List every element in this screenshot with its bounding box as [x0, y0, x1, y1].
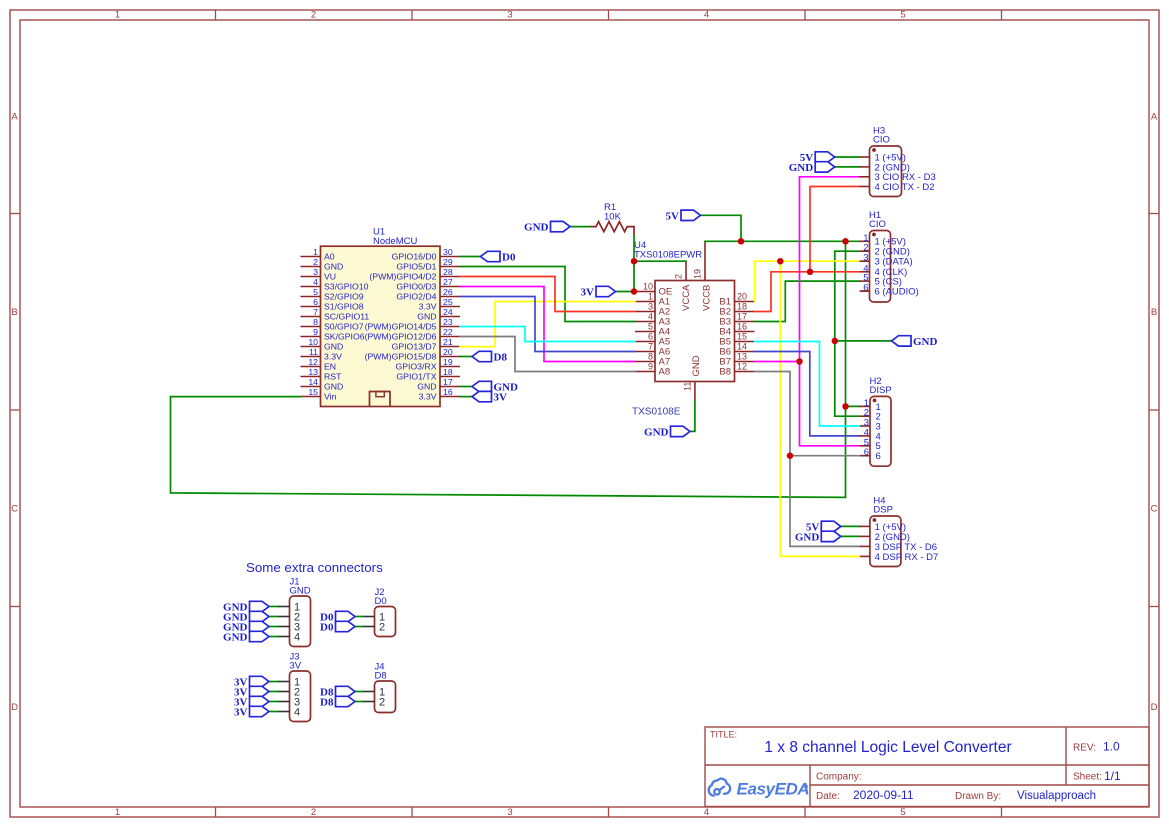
svg-text:28: 28: [443, 267, 453, 277]
svg-text:S2/GPIO9: S2/GPIO9: [324, 292, 364, 302]
svg-text:1: 1: [115, 807, 120, 818]
svg-text:D8: D8: [375, 671, 387, 682]
svg-text:4: 4: [704, 10, 709, 21]
svg-text:12: 12: [308, 357, 318, 367]
svg-text:2020-09-11: 2020-09-11: [853, 788, 914, 802]
svg-text:TITLE:: TITLE:: [710, 730, 737, 740]
svg-text:S3/GPIO10: S3/GPIO10: [324, 282, 369, 292]
svg-text:24: 24: [443, 307, 453, 317]
svg-text:3: 3: [507, 10, 512, 21]
svg-text:SC/GPIO11: SC/GPIO11: [324, 312, 369, 322]
svg-text:8: 8: [648, 352, 653, 362]
svg-text:4: 4: [648, 312, 653, 322]
svg-text:GND: GND: [324, 342, 343, 352]
svg-text:10K: 10K: [604, 212, 622, 223]
svg-text:B: B: [1151, 307, 1157, 318]
svg-text:A: A: [11, 112, 18, 123]
svg-text:VCCA: VCCA: [681, 284, 692, 311]
svg-text:A0: A0: [324, 252, 335, 262]
svg-text:6: 6: [864, 447, 869, 458]
svg-text:D: D: [1151, 702, 1158, 713]
svg-text:GPIO2/D4: GPIO2/D4: [396, 292, 436, 302]
svg-text:12: 12: [737, 362, 747, 372]
svg-text:19: 19: [443, 357, 453, 367]
svg-text:25: 25: [443, 297, 453, 307]
svg-text:B8: B8: [719, 367, 731, 378]
svg-text:6 (AUDIO): 6 (AUDIO): [875, 287, 919, 298]
svg-text:D8: D8: [494, 352, 508, 364]
svg-text:Company:: Company:: [816, 772, 862, 783]
svg-text:CIO: CIO: [873, 135, 890, 146]
svg-text:NodeMCU: NodeMCU: [373, 236, 417, 247]
svg-text:GND: GND: [789, 162, 814, 174]
svg-text:5: 5: [900, 10, 905, 21]
svg-text:5: 5: [900, 807, 905, 818]
svg-text:3V: 3V: [581, 287, 595, 299]
svg-text:4: 4: [294, 707, 300, 719]
svg-text:3.3V: 3.3V: [419, 392, 437, 402]
svg-text:1: 1: [313, 247, 318, 257]
svg-text:13: 13: [308, 367, 318, 377]
svg-text:19: 19: [693, 269, 703, 279]
svg-text:2: 2: [311, 10, 316, 21]
svg-text:23: 23: [443, 317, 453, 327]
svg-text:GND: GND: [324, 262, 343, 272]
svg-text:3: 3: [507, 807, 512, 818]
svg-text:1 x 8 channel Logic Level Conv: 1 x 8 channel Logic Level Converter: [764, 739, 1011, 756]
svg-text:DSP: DSP: [873, 505, 893, 516]
svg-text:B: B: [11, 307, 17, 318]
svg-text:14: 14: [308, 377, 318, 387]
svg-text:3.3V: 3.3V: [419, 302, 437, 312]
svg-text:(PWM)GPIO4/D2: (PWM)GPIO4/D2: [369, 272, 436, 282]
svg-text:2: 2: [379, 697, 385, 709]
svg-text:Date:: Date:: [816, 791, 840, 802]
svg-text:4: 4: [294, 632, 300, 644]
svg-text:TXS0108E: TXS0108E: [632, 407, 681, 418]
svg-text:1/1: 1/1: [1104, 769, 1121, 783]
svg-text:D0: D0: [375, 596, 387, 607]
svg-text:C: C: [11, 504, 18, 515]
svg-text:21: 21: [443, 337, 453, 347]
svg-text:18: 18: [443, 367, 453, 377]
svg-text:1: 1: [648, 292, 653, 302]
svg-text:6: 6: [863, 283, 868, 294]
svg-text:Drawn By:: Drawn By:: [955, 791, 1001, 802]
svg-text:15: 15: [737, 332, 747, 342]
svg-text:3: 3: [863, 253, 868, 264]
svg-text:SK/GPIO6: SK/GPIO6: [324, 332, 365, 342]
svg-text:16: 16: [737, 322, 747, 332]
svg-text:GPIO1/TX: GPIO1/TX: [396, 372, 436, 382]
svg-text:10: 10: [308, 337, 318, 347]
svg-text:GPIO5/D1: GPIO5/D1: [396, 262, 436, 272]
svg-text:RST: RST: [324, 372, 342, 382]
svg-text:Vin: Vin: [324, 392, 337, 402]
svg-text:29: 29: [443, 257, 453, 267]
svg-text:REV:: REV:: [1073, 743, 1096, 754]
svg-text:GND: GND: [290, 586, 311, 597]
svg-text:13: 13: [737, 352, 747, 362]
svg-text:4: 4: [313, 277, 318, 287]
svg-text:11: 11: [683, 382, 693, 391]
svg-text:5: 5: [648, 322, 653, 332]
svg-text:2: 2: [674, 274, 684, 279]
svg-text:A: A: [1151, 112, 1158, 123]
svg-text:3V: 3V: [494, 392, 508, 404]
svg-text:EasyEDA: EasyEDA: [737, 780, 810, 799]
svg-text:S0/GPIO7: S0/GPIO7: [324, 322, 364, 332]
svg-text:3: 3: [313, 267, 318, 277]
svg-text:GND: GND: [417, 312, 436, 322]
svg-text:2: 2: [311, 807, 316, 818]
svg-text:3V: 3V: [234, 707, 248, 719]
svg-text:2: 2: [379, 622, 385, 634]
svg-text:Sheet:: Sheet:: [1073, 772, 1102, 783]
svg-text:GND: GND: [795, 531, 820, 543]
svg-text:GPIO3/RX: GPIO3/RX: [395, 362, 436, 372]
svg-text:D8: D8: [320, 697, 334, 709]
svg-text:27: 27: [443, 277, 453, 287]
svg-text:15: 15: [308, 387, 318, 397]
svg-text:VCCB: VCCB: [702, 285, 713, 311]
svg-text:5: 5: [313, 287, 318, 297]
svg-text:GPIO16/D0: GPIO16/D0: [392, 252, 437, 262]
svg-text:9: 9: [648, 362, 653, 372]
svg-text:7: 7: [313, 307, 318, 317]
svg-text:18: 18: [737, 302, 747, 312]
svg-text:7: 7: [648, 342, 653, 352]
svg-text:(PWM)GPIO12/D6: (PWM)GPIO12/D6: [365, 332, 437, 342]
svg-text:10: 10: [643, 282, 653, 292]
svg-text:CIO: CIO: [869, 219, 886, 230]
svg-text:22: 22: [443, 327, 453, 337]
svg-text:GPIO13/D7: GPIO13/D7: [392, 342, 437, 352]
svg-text:DISP: DISP: [870, 385, 892, 396]
svg-text:Some extra connectors: Some extra connectors: [246, 560, 383, 575]
svg-text:VU: VU: [324, 272, 336, 282]
svg-text:C: C: [1151, 504, 1158, 515]
svg-text:GND: GND: [913, 336, 938, 348]
svg-text:(PWM)GPIO15/D8: (PWM)GPIO15/D8: [365, 352, 437, 362]
svg-text:GND: GND: [524, 222, 549, 234]
svg-text:EN: EN: [324, 362, 336, 372]
svg-text:1.0: 1.0: [1103, 740, 1120, 754]
svg-text:GPIO0/D3: GPIO0/D3: [396, 282, 436, 292]
svg-text:D0: D0: [502, 252, 516, 264]
svg-text:6: 6: [876, 451, 881, 462]
svg-text:4: 4: [704, 807, 709, 818]
svg-text:14: 14: [737, 342, 747, 352]
svg-text:GND: GND: [691, 355, 702, 376]
svg-text:Visualapproach: Visualapproach: [1017, 790, 1096, 802]
svg-text:GND: GND: [223, 632, 248, 644]
svg-text:3: 3: [648, 302, 653, 312]
svg-text:4 CIO TX - D2: 4 CIO TX - D2: [875, 182, 935, 193]
svg-text:26: 26: [443, 287, 453, 297]
svg-text:9: 9: [313, 327, 318, 337]
svg-text:6: 6: [648, 332, 653, 342]
svg-text:A8: A8: [659, 367, 671, 378]
svg-text:TXS0108EPWR: TXS0108EPWR: [634, 250, 702, 261]
svg-text:20: 20: [737, 292, 747, 302]
svg-text:3.3V: 3.3V: [324, 352, 342, 362]
svg-text:11: 11: [309, 347, 318, 357]
svg-text:5V: 5V: [666, 210, 680, 222]
svg-text:3 (DATA): 3 (DATA): [875, 257, 913, 268]
svg-text:30: 30: [443, 247, 453, 257]
svg-text:(PWM)GPIO14/D5: (PWM)GPIO14/D5: [365, 322, 437, 332]
svg-text:1: 1: [115, 10, 120, 21]
svg-text:2: 2: [313, 257, 318, 267]
svg-text:4 DSP RX - D7: 4 DSP RX - D7: [875, 552, 939, 563]
svg-text:6: 6: [313, 297, 318, 307]
svg-text:GND: GND: [324, 382, 343, 392]
svg-text:D0: D0: [320, 622, 334, 634]
svg-text:17: 17: [443, 377, 453, 387]
svg-text:16: 16: [443, 387, 453, 397]
svg-text:20: 20: [443, 347, 453, 357]
svg-text:3V: 3V: [290, 661, 302, 672]
svg-text:GND: GND: [417, 382, 436, 392]
svg-text:8: 8: [313, 317, 318, 327]
svg-text:D: D: [11, 702, 18, 713]
svg-text:GND: GND: [644, 426, 669, 438]
svg-text:17: 17: [737, 312, 747, 322]
svg-text:S1/GPIO8: S1/GPIO8: [324, 302, 364, 312]
